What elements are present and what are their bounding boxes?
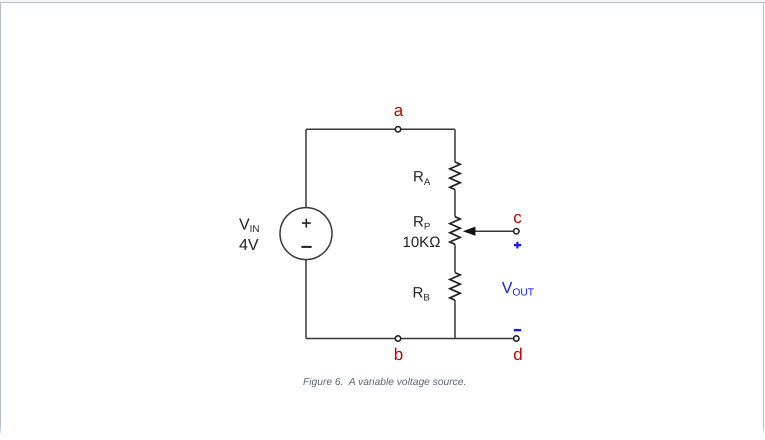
wire: left vertical bottom (VIN - to node b) bbox=[305, 260, 307, 339]
voltage source VIN bbox=[280, 208, 332, 260]
svg-text:RP: RP bbox=[413, 213, 430, 232]
svg-text:VIN: VIN bbox=[239, 216, 260, 235]
potentiometer RP element bbox=[450, 217, 460, 245]
svg-text:a: a bbox=[394, 101, 404, 120]
wire: right vertical segment RP to RB bbox=[454, 244, 456, 272]
wire: right vertical segment RB to bottom bbox=[454, 300, 456, 338]
wire: right vertical segment node a to RA bbox=[454, 129, 456, 162]
svg-text:4V: 4V bbox=[239, 237, 259, 254]
wire: right vertical segment RA to RP bbox=[454, 190, 456, 217]
svg-text:c: c bbox=[513, 208, 522, 227]
wire: wiper to node c bbox=[470, 230, 513, 232]
node a bbox=[395, 127, 400, 132]
wiper arrow of RP bbox=[463, 227, 476, 236]
svg-text:RA: RA bbox=[413, 168, 431, 187]
node c bbox=[514, 229, 519, 234]
label plus output terminal bbox=[514, 242, 521, 249]
svg-text:Figure 6. A variable voltage: Figure 6. A variable voltage source. bbox=[303, 377, 466, 388]
svg-text:b: b bbox=[394, 345, 403, 364]
minus sign inside VIN bbox=[301, 246, 311, 248]
svg-text:RB: RB bbox=[413, 284, 430, 303]
resistor RA bbox=[450, 162, 460, 190]
svg-text:d: d bbox=[513, 345, 522, 364]
resistor RB bbox=[450, 273, 460, 301]
wire: top horizontal a-net bbox=[306, 128, 455, 130]
plus sign inside VIN bbox=[302, 219, 311, 228]
wire: bottom horizontal (b-net to node d) bbox=[306, 338, 516, 340]
wire: left vertical top (node a to VIN +) bbox=[305, 129, 307, 207]
node d bbox=[514, 336, 519, 341]
label minus output terminal bbox=[514, 329, 521, 331]
svg-text:10KΩ: 10KΩ bbox=[403, 234, 441, 251]
node b bbox=[395, 336, 400, 341]
svg-text:VOUT: VOUT bbox=[502, 280, 535, 298]
